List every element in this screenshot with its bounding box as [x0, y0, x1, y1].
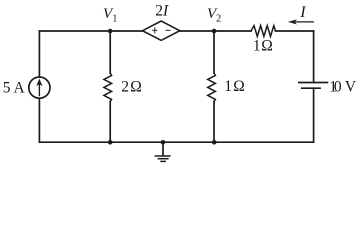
- wire right side above battery: [313, 31, 315, 83]
- dependent source minus sign: [166, 29, 171, 31]
- wire top-left segment (left corner to diamond): [39, 30, 142, 32]
- dependent source plus sign: [152, 27, 157, 33]
- junction dot bottom right: [212, 140, 217, 145]
- wire V2 branch upper: [213, 31, 215, 73]
- battery V1 10V bottom plate: [301, 87, 321, 89]
- svg-text:Ω: Ω: [233, 78, 245, 95]
- node V2 junction dot top: [212, 29, 217, 34]
- svg-text:Ω: Ω: [130, 78, 142, 95]
- resistor R2 1ohm vertical zigzag: [208, 73, 216, 102]
- wire left side above source: [38, 31, 40, 77]
- svg-text:Ω: Ω: [261, 37, 273, 54]
- wire bottom rail: [39, 141, 313, 143]
- svg-text:2: 2: [216, 14, 221, 25]
- battery V1 10V top plate: [298, 82, 328, 84]
- node V1 junction dot top: [108, 29, 113, 34]
- wire ground stub: [162, 142, 164, 155]
- current source I1 circle: [29, 77, 50, 98]
- svg-text:5 A: 5 A: [3, 80, 26, 97]
- svg-text:1: 1: [224, 78, 232, 95]
- svg-text:1: 1: [112, 14, 117, 25]
- svg-text:V: V: [345, 79, 357, 96]
- current arrow I: [288, 20, 314, 25]
- wire V1 branch lower: [109, 102, 111, 143]
- wire top-right segment (resistor to right corner): [276, 30, 314, 32]
- svg-text:0: 0: [334, 79, 342, 96]
- resistor R3 1ohm horizontal zigzag: [251, 26, 276, 37]
- resistor R1 2ohm zigzag: [104, 73, 112, 102]
- wire right side below battery: [313, 88, 315, 142]
- dependent source U1 diamond: [143, 21, 180, 40]
- ground symbol: [155, 156, 171, 161]
- svg-text:2: 2: [121, 78, 129, 95]
- svg-text:1: 1: [253, 37, 261, 54]
- svg-text:I: I: [299, 4, 306, 21]
- svg-text:2I: 2I: [155, 2, 169, 19]
- junction dot bottom left: [108, 140, 113, 145]
- current source I1 arrow: [37, 79, 42, 96]
- junction dot bottom ground: [161, 140, 166, 145]
- wire top-mid segment (diamond to 1ohm resistor): [180, 30, 251, 32]
- wire left side below source: [38, 98, 40, 142]
- wire V1 branch upper: [109, 31, 111, 73]
- wire V2 branch lower: [213, 102, 215, 143]
